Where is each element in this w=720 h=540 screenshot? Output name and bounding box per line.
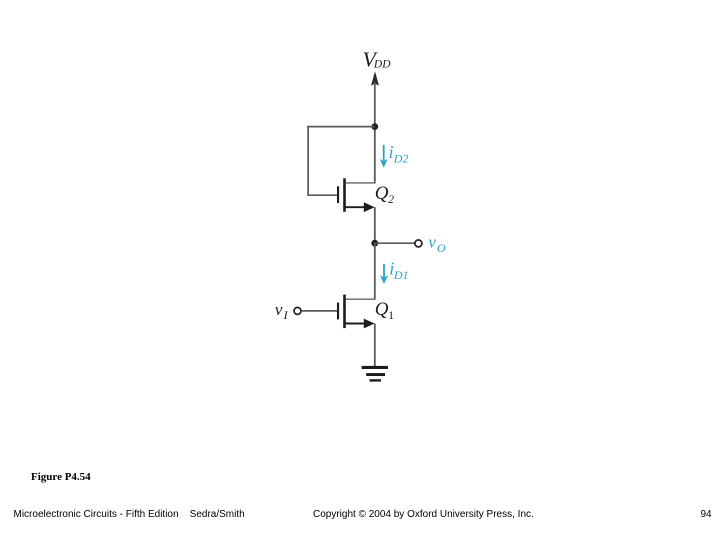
label Q1 (375, 299, 395, 322)
svg-text:O: O (437, 241, 446, 255)
wire: vI to Q1 gate (301, 310, 337, 312)
wire: Q2 drain rail (374, 127, 376, 184)
svg-text:Q: Q (375, 183, 389, 204)
terminal vO (415, 240, 422, 247)
svg-text:DD: DD (373, 58, 391, 70)
label Q2 (375, 183, 395, 206)
svg-text:1: 1 (388, 310, 394, 322)
svg-text:D2: D2 (393, 152, 409, 166)
wire: output stub (375, 242, 415, 244)
svg-text:2: 2 (388, 194, 394, 206)
svg-text:D1: D1 (393, 268, 409, 282)
footer copyright (313, 509, 534, 520)
label iD2 (389, 142, 409, 165)
node: output junction (371, 240, 378, 247)
wire: VDD arrow to gate-drain node (374, 82, 376, 127)
label vO (428, 233, 446, 255)
wire: feedback to Q2 gate (307, 194, 337, 196)
wire: Q1 source to ground (374, 324, 376, 368)
footer book title (14, 509, 245, 520)
wire: Q2 source to output node (374, 207, 376, 243)
svg-text:v: v (428, 233, 436, 252)
wire: output node to Q1 drain (374, 243, 376, 299)
wire: feedback top segment (307, 126, 375, 128)
terminal vI (294, 307, 301, 314)
label VDD (363, 47, 392, 71)
svg-text:I: I (283, 308, 289, 322)
current arrow iD1 (380, 264, 388, 284)
svg-text:v: v (275, 300, 283, 319)
wire: feedback left segment (307, 126, 309, 195)
transistor Q2 (337, 178, 375, 212)
VDD supply arrow (371, 71, 379, 86)
caption Figure P4.54 (31, 471, 91, 483)
label vI (275, 300, 289, 322)
ground (362, 366, 388, 382)
label iD1 (389, 259, 408, 282)
current arrow iD2 (380, 145, 388, 168)
svg-text:Q: Q (375, 299, 389, 320)
transistor Q1 (337, 295, 375, 329)
footer page number (701, 509, 712, 520)
node: Q2 gate-drain junction (371, 123, 378, 130)
